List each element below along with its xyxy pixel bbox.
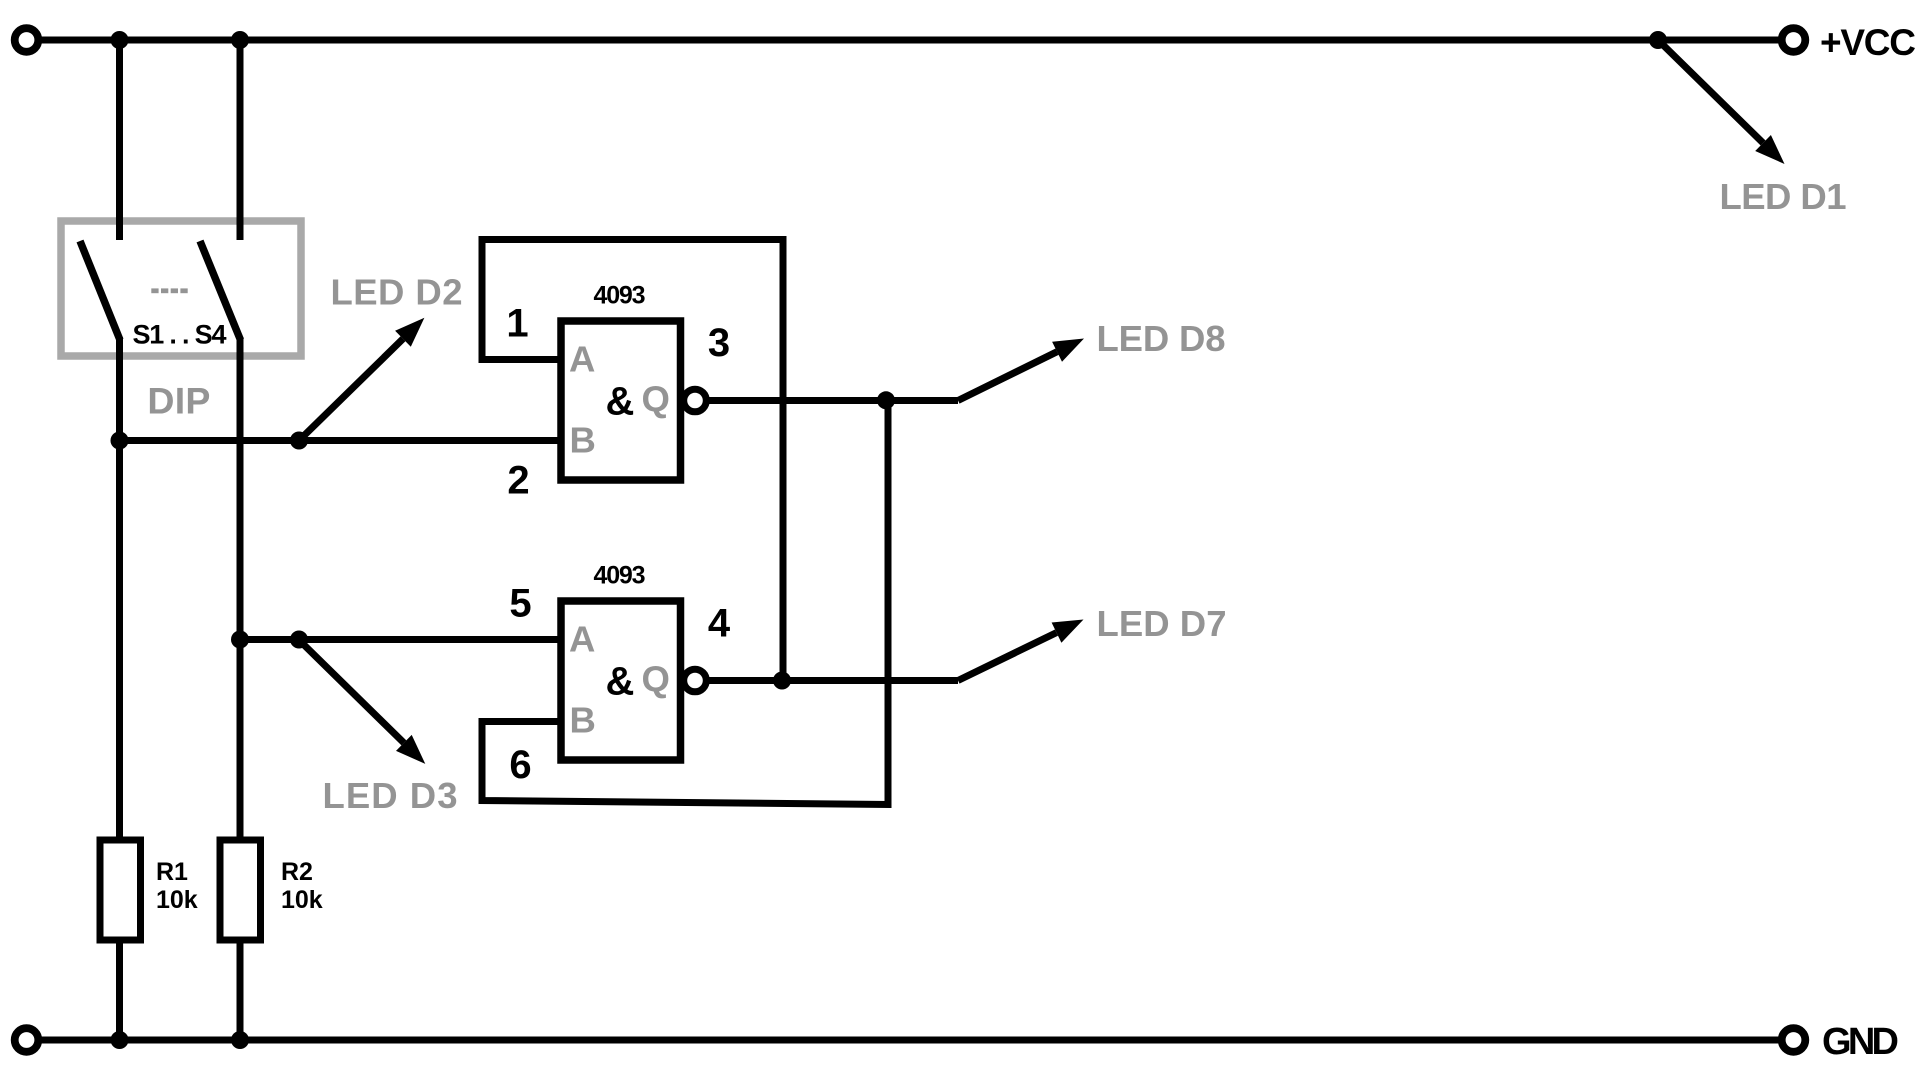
- svg-text:6: 6: [509, 743, 531, 787]
- wire gate U1B output: [709, 677, 958, 684]
- junction branch 2 / node A2 wire: [231, 631, 249, 649]
- svg-text:5: 5: [509, 582, 531, 626]
- junction top rail / branch 1: [111, 31, 129, 49]
- svg-text:10k: 10k: [281, 886, 323, 914]
- resistor R1 body: [100, 840, 141, 940]
- svg-text:&: &: [606, 380, 635, 424]
- LED D7 arrow: [958, 633, 1057, 681]
- svg-text:3: 3: [708, 321, 730, 365]
- svg-text:LED D7: LED D7: [1097, 603, 1227, 644]
- LED D1 arrow: [1658, 40, 1763, 143]
- junction branch 1 / node A1 wire: [111, 432, 129, 450]
- junction top rail / branch 2: [231, 31, 249, 49]
- NAND gate U1A body: [561, 321, 681, 480]
- junction bottom rail / branch 1: [111, 1031, 129, 1049]
- wire branch 2 lower vertical (switch S4 to R2 to GND): [237, 337, 244, 1040]
- svg-text:1: 1: [506, 302, 528, 346]
- LED D3 arrow: [299, 640, 404, 743]
- svg-text:GND: GND: [1822, 1021, 1899, 1063]
- terminal +VCC left: [15, 28, 39, 52]
- junction node A2 / LED D3 arrow: [290, 631, 308, 649]
- terminal GND right: [1782, 1028, 1806, 1052]
- wire node A2 horizontal (switch S4 to gate U1B input A): [240, 636, 561, 643]
- gate U1B inverter bubble: [684, 669, 707, 692]
- svg-text:&: &: [606, 660, 635, 704]
- DIP switch box: [61, 221, 301, 356]
- svg-text:10k: 10k: [156, 886, 198, 914]
- svg-text:Q: Q: [642, 659, 670, 700]
- svg-text:4: 4: [708, 602, 731, 646]
- wire branch 1 vertical (VCC to switch S1): [116, 40, 123, 240]
- junction top rail / LED D1 arrow: [1649, 31, 1667, 49]
- switch S1 arm: [80, 241, 120, 340]
- svg-text:+VCC: +VCC: [1820, 22, 1916, 63]
- svg-text:4093: 4093: [594, 562, 646, 590]
- svg-text:B: B: [570, 420, 596, 461]
- svg-text:S1 . . S4: S1 . . S4: [133, 320, 227, 350]
- junction bottom rail / branch 2: [231, 1031, 249, 1049]
- wire node A1 horizontal (switch S1 to gate U1A input B): [120, 437, 562, 444]
- NAND gate U1B body: [561, 601, 681, 760]
- svg-text:R2: R2: [281, 858, 313, 886]
- wire branch 2 vertical (VCC to switch S4): [237, 40, 244, 240]
- switch S4 arm: [200, 241, 241, 340]
- wire bottom GND rail: [38, 1037, 1779, 1044]
- terminal GND left: [15, 1028, 39, 1052]
- wire gate U1A output: [709, 397, 958, 404]
- svg-text:4093: 4093: [594, 282, 646, 310]
- junction node A1 / LED D2 arrow: [290, 432, 308, 450]
- wire branch 1 lower vertical (switch S1 to R1 to GND): [116, 337, 123, 1040]
- svg-text:B: B: [570, 700, 596, 741]
- svg-text:LED D2: LED D2: [331, 272, 463, 313]
- gate U1A inverter bubble: [684, 389, 707, 412]
- LED D8 arrow: [958, 352, 1057, 401]
- svg-text:Q: Q: [642, 379, 670, 420]
- svg-text:A: A: [569, 339, 595, 380]
- junction loop 2 / gate U1A output: [877, 391, 895, 409]
- terminal +VCC right: [1782, 28, 1806, 52]
- svg-text:LED D3: LED D3: [323, 775, 458, 816]
- svg-text:LED D1: LED D1: [1720, 176, 1847, 217]
- svg-text:LED D8: LED D8: [1097, 318, 1226, 359]
- label .... (more switches): [151, 288, 187, 293]
- wire top VCC rail: [38, 37, 1779, 44]
- wire feedback loop 1 (gate U1B output pin 4 to gate U1A input A pin 1): [482, 240, 783, 681]
- junction loop 1 / gate U1B output: [773, 672, 791, 690]
- svg-text:DIP: DIP: [147, 380, 210, 422]
- wire feedback loop 2 (gate U1A output pin 3 to gate U1B input B pin 6): [482, 401, 888, 805]
- LED D2 arrow: [299, 339, 403, 441]
- svg-text:A: A: [569, 619, 595, 660]
- svg-text:2: 2: [507, 459, 529, 503]
- resistor R2 body: [220, 840, 261, 940]
- svg-text:R1: R1: [156, 858, 188, 886]
